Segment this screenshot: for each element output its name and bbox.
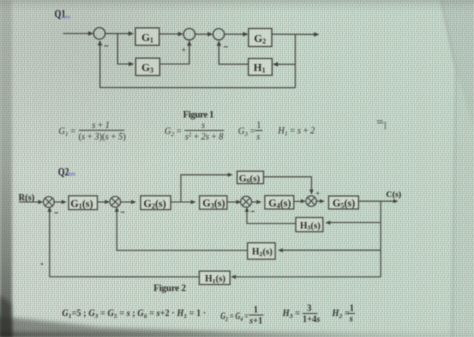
svg-text:C(s): C(s) — [386, 189, 401, 199]
wire into H1 — [273, 62, 296, 67]
wire input to summer T1 — [19, 200, 43, 204]
wire branch up to G6 — [181, 173, 233, 202]
summing junction S3 — [213, 29, 224, 40]
wire G1 to summer T2 — [97, 200, 109, 204]
wire outer feedback loop into S1 — [98, 40, 296, 88]
block G6(s) — [237, 171, 263, 185]
summing junction T1 (circle-X) — [43, 197, 54, 208]
wire G2 to output C — [272, 32, 320, 37]
summing junction T3 — [241, 196, 252, 207]
svg-text:G2(s): G2(s) — [144, 199, 167, 211]
svg-text:Q2: Q2 — [58, 167, 69, 179]
formula G3 — [238, 120, 263, 142]
svg-text:s2 + 2s + 8: s2 + 2s + 8 — [185, 132, 224, 142]
formula H3 — [282, 303, 321, 324]
wire G5 to output C(s) — [359, 199, 399, 203]
wire output branch down — [294, 34, 296, 87]
svg-text:s: s — [257, 132, 261, 142]
svg-text:s+1: s+1 — [249, 316, 264, 326]
svg-text:G2 = G4 =: G2 = G4 = — [221, 311, 249, 323]
wire G1 to summer S2 — [159, 32, 183, 37]
svg-text:(s + 3)(s + 5): (s + 3)(s + 5) — [79, 132, 126, 142]
svg-text:H3 =: H3 = — [282, 308, 301, 320]
wire H3 up into T3 — [245, 207, 296, 224]
svg-text:s: s — [202, 120, 206, 130]
wire G6 down into summer T4 — [264, 177, 314, 195]
wire H1 up into S3 — [217, 41, 249, 65]
svg-text:1+4s: 1+4s — [303, 314, 321, 324]
svg-text:H2 =: H2 = — [331, 308, 350, 320]
svg-text:G6(s): G6(s) — [239, 173, 260, 184]
wire G3 up into S2 — [160, 40, 192, 64]
label Q2 — [58, 167, 76, 179]
wire S3 to G2 — [224, 32, 248, 37]
wire H1 up into T1 — [48, 207, 200, 277]
formula H1 — [277, 126, 315, 138]
wire G3 to summer T3 — [227, 200, 241, 204]
wire S2 to summer S3 — [195, 32, 213, 37]
minus sign at S3 — [224, 46, 228, 48]
minus sign at T2 — [121, 211, 125, 213]
formula G2=G4 — [221, 305, 264, 326]
svg-text:G1 =: G1 = — [59, 126, 76, 138]
block G4(s) — [265, 196, 294, 210]
stray dot — [41, 263, 43, 265]
svg-text:G3 =: G3 = — [238, 126, 255, 138]
formula row: G1=5 ... — [62, 308, 206, 320]
summing junction S2 — [184, 28, 196, 40]
svg-text:I: I — [384, 121, 388, 132]
summing junction T4 — [306, 196, 317, 207]
svg-text:H1 = s + 2: H1 = s + 2 — [277, 126, 315, 138]
svg-text:Q1: Q1 — [55, 9, 66, 21]
wire H2 up into T2 — [115, 207, 248, 251]
wire input R to summer S1 — [63, 31, 94, 36]
svg-text:H1(s): H1(s) — [205, 274, 226, 285]
minus sign at S1 — [104, 45, 108, 47]
block H2(s) — [248, 243, 276, 259]
wire G4 to summer T4 — [294, 199, 306, 203]
svg-text:G2 =: G2 = — [165, 126, 182, 138]
svg-text:1: 1 — [254, 305, 259, 315]
svg-text:R(s): R(s) — [19, 193, 35, 203]
formula H2 — [331, 303, 355, 324]
block G5(s) — [329, 196, 359, 210]
minus sign at T3 — [251, 210, 255, 212]
svg-text:G3(s): G3(s) — [203, 199, 226, 211]
svg-text:Figure 1: Figure 1 — [183, 111, 214, 121]
wire into H3 — [325, 221, 380, 225]
summing junction T2 — [110, 196, 121, 207]
svg-text:1: 1 — [257, 120, 262, 130]
block H1(s) — [199, 271, 230, 285]
svg-text:s: s — [349, 314, 354, 324]
wire G2 to G3 with branch node — [171, 200, 196, 204]
block G2(s) — [141, 196, 171, 211]
label Q1 — [55, 9, 71, 21]
svg-text:H3(s): H3(s) — [300, 220, 321, 231]
svg-text:G4(s): G4(s) — [269, 199, 292, 211]
text cursor mark — [377, 120, 388, 132]
svg-text:1: 1 — [350, 303, 355, 313]
wire T3 to G4 — [251, 200, 262, 204]
block G1 — [135, 28, 159, 45]
block G3 — [136, 58, 160, 75]
block G3(s) — [200, 196, 228, 210]
block G2 — [249, 29, 272, 47]
svg-text:G1=5 ; G3 = G5 = s ; G6 = s+2: G1=5 ; G3 = G5 = s ; G6 = s+2 · H1 = 1 · — [62, 308, 206, 320]
svg-text:+: + — [316, 189, 321, 198]
wire branch down to G3 — [118, 34, 135, 67]
formula G2 — [165, 120, 225, 142]
block H3(s) — [296, 218, 323, 232]
svg-text:H2(s): H2(s) — [252, 246, 273, 257]
wire S1 to G1 with branch — [105, 31, 134, 36]
wire T4 to G5 — [316, 199, 325, 203]
svg-text:3: 3 — [307, 303, 312, 313]
svg-text:s + 1: s + 1 — [92, 120, 110, 130]
summing junction S1 — [94, 28, 106, 40]
formula G1 — [59, 120, 126, 142]
wire output branch down — [380, 201, 382, 277]
wire T2 to G2 — [120, 200, 136, 204]
svg-text:G5(s): G5(s) — [333, 199, 356, 211]
minus sign at T1 — [54, 212, 58, 214]
svg-text:G1(s): G1(s) — [71, 199, 94, 211]
wire into H1 — [231, 275, 381, 279]
wire into H2 — [278, 248, 381, 252]
svg-text:Figure 2: Figure 2 — [154, 284, 187, 294]
wire T1 to G1 — [53, 200, 66, 204]
block H1 — [248, 59, 272, 76]
svg-text:+: + — [182, 46, 187, 55]
block G1(s) — [69, 196, 98, 211]
